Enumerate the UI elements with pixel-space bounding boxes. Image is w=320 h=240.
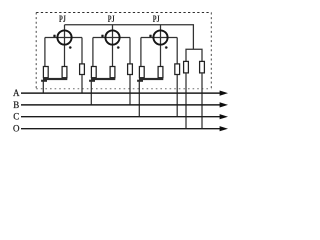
- wire: FU4a to bus O: [185, 73, 187, 129]
- bus O: [21, 128, 221, 130]
- wire: PJ2 left drop to fuse: [92, 38, 94, 67]
- svg-text:O: O: [13, 124, 20, 134]
- meter PJ1 element circle: [57, 30, 71, 44]
- fuse FU4a (neutral): [184, 61, 189, 73]
- wire: PJ3 single fuse to bus: [176, 75, 178, 117]
- fuse FU1c (single): [80, 64, 85, 75]
- fuse FU3c (single): [175, 64, 180, 75]
- svg-text:PJ: PJ: [153, 14, 160, 25]
- meter PJ3 current coil wire (horizontal): [141, 37, 177, 39]
- wire: PJ1 left drop to fuse: [44, 38, 46, 67]
- dashed enclosure right edge: [210, 13, 212, 89]
- fuse FU2c (single): [128, 64, 133, 75]
- dashed enclosure left edge: [35, 13, 37, 89]
- fuse FU1b: [62, 67, 67, 78]
- polarity mark * PJ2 current coil: [101, 35, 104, 37]
- meter PJ1 voltage coil wire (vertical): [64, 25, 66, 67]
- wire: PJ3 left drop to fuse: [140, 38, 142, 67]
- arrow B: [220, 102, 228, 107]
- dashed enclosure (meter cabinet) top edge: [36, 12, 211, 14]
- svg-text:B: B: [13, 100, 19, 110]
- polarity mark * PJ2 voltage coil: [117, 46, 120, 48]
- wire: PJ1 right drop to fuse: [81, 38, 83, 64]
- svg-text:PJ: PJ: [108, 14, 115, 25]
- wire: PJ2 bar step: [89, 80, 95, 82]
- wire: PJ2 single fuse to bus: [129, 75, 131, 105]
- svg-text:PJ: PJ: [59, 14, 66, 25]
- wire: PJ1 bar step: [41, 80, 47, 82]
- wire: PJ2 tap to bus: [90, 82, 92, 105]
- wire: FU4b to bus O: [201, 73, 203, 129]
- wire: PJ2 right drop to fuse: [129, 38, 131, 64]
- arrow C: [220, 114, 228, 119]
- bus B: [21, 104, 221, 106]
- wire: PJ3 tap to bus: [138, 82, 140, 117]
- wire: neutral fuse feeder (inverted U): [186, 49, 202, 61]
- bus C: [21, 116, 221, 118]
- wire: PJ1 tap to bus: [42, 82, 44, 94]
- meter PJ2 voltage coil wire (vertical): [112, 25, 114, 67]
- fuse FU2b: [110, 67, 115, 78]
- fuse FU4b (neutral): [200, 61, 205, 73]
- wire: PJ1 fuse bottom bar: [43, 78, 67, 80]
- meter PJ2 current coil wire (horizontal): [93, 37, 130, 39]
- wire: PJ1 single fuse to bus: [81, 75, 83, 94]
- meter PJ3 element circle: [153, 30, 167, 44]
- meter PJ2 element circle: [105, 30, 119, 44]
- wire: PJ3 bar step: [137, 80, 143, 82]
- arrow O: [220, 126, 228, 131]
- meter PJ1 current coil wire (horizontal): [45, 37, 82, 39]
- dashed enclosure bottom edge: [36, 88, 211, 90]
- wire: PJ2 fuse bottom bar: [91, 78, 115, 80]
- fuse FU1a: [43, 67, 48, 78]
- fuse FU2a: [91, 67, 96, 78]
- svg-text:C: C: [13, 112, 19, 122]
- meter PJ3 voltage coil wire (vertical): [160, 25, 162, 67]
- polarity mark * PJ1 voltage coil: [69, 46, 72, 48]
- wire: PJ3 fuse bottom bar: [139, 78, 163, 80]
- bus A: [21, 92, 221, 94]
- polarity mark * PJ3 voltage coil: [165, 46, 168, 48]
- svg-text:A: A: [13, 88, 20, 98]
- fuse FU3b: [158, 67, 163, 78]
- polarity mark * PJ3 current coil: [149, 35, 152, 37]
- fuse FU3a: [139, 67, 144, 78]
- polarity mark * PJ1 current coil: [53, 35, 56, 37]
- arrow A: [220, 91, 228, 96]
- wire: top voltage bus: [65, 25, 194, 50]
- wire: PJ3 right drop to fuse: [176, 38, 178, 64]
